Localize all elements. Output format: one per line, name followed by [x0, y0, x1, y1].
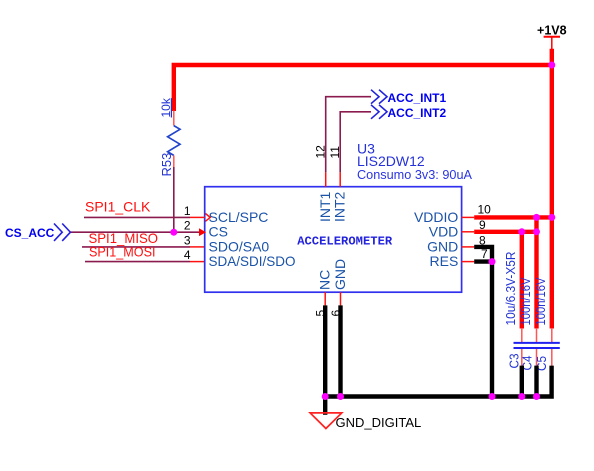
svg-text:GND: GND [332, 259, 348, 290]
pin 3 stub [190, 246, 205, 248]
junction bus gnd [322, 393, 329, 400]
svg-text:GND_DIGITAL: GND_DIGITAL [336, 415, 422, 430]
junction VDD-column2 [533, 228, 540, 235]
pin 12 stub [325, 172, 327, 186]
svg-text:SPI1_CLK: SPI1_CLK [85, 198, 151, 214]
wire +1V8 vertical column right [550, 49, 554, 329]
svg-text:INT2: INT2 [332, 191, 348, 222]
wire pin6 to bus [338, 305, 342, 396]
junction bus C4 [533, 393, 540, 400]
wire C4 to bus [534, 366, 538, 397]
resistor R1 (R53) [168, 111, 180, 168]
pin 11 stub [339, 172, 341, 186]
wire gnd stub [323, 397, 327, 415]
svg-text:10: 10 [478, 203, 492, 217]
junction +1V8 corner [548, 62, 555, 69]
wire ground bus with C5 riser [325, 366, 551, 397]
svg-text:ACC_INT1: ACC_INT1 [388, 91, 447, 105]
power symbol +1V8 [537, 24, 567, 51]
wire RES pin7 [474, 259, 492, 263]
wire SPI1_MISO [82, 246, 190, 248]
capacitor C3 [521, 328, 523, 366]
svg-text:SDO/SA0: SDO/SA0 [209, 239, 270, 255]
svg-text:VDD: VDD [429, 224, 459, 240]
svg-text:+1V8: +1V8 [537, 24, 567, 38]
svg-text:100n/16V: 100n/16V [519, 277, 533, 325]
capacitor plates C3 C4 C5 [514, 343, 560, 348]
pin 10 stub [462, 216, 475, 218]
capacitor C4 [536, 328, 538, 366]
svg-text:ACC_INT2: ACC_INT2 [388, 106, 447, 120]
svg-text:NC: NC [317, 270, 333, 290]
port ACC_INT2 [371, 105, 447, 120]
svg-text:3: 3 [184, 233, 191, 247]
pin 5 stub [324, 292, 326, 305]
capacitor C5 [551, 328, 553, 366]
pin 4 stub [190, 261, 205, 263]
pin 9 stub [462, 231, 475, 233]
wire column C4 [534, 217, 538, 328]
svg-text:100n/16V: 100n/16V [534, 277, 548, 325]
port CS_ACC [5, 224, 70, 241]
wire C3 to bus [520, 366, 524, 397]
junction VDD-column1 [518, 228, 525, 235]
svg-text:Consumo 3v3: 90uA: Consumo 3v3: 90uA [357, 167, 472, 182]
junction VDDIO-column1 [533, 214, 540, 221]
ground GND_DIGITAL symbol [310, 413, 342, 429]
port ACC_INT1 [371, 90, 447, 105]
svg-text:CS: CS [209, 224, 228, 240]
pin 8 stub [462, 246, 475, 248]
wire ACC_INT2 [340, 112, 371, 173]
wire +1V8 thick red top rail [174, 65, 552, 111]
op-amp U3 accelerometer body [205, 187, 462, 293]
pin 6 stub [340, 292, 342, 305]
svg-text:VDDIO: VDDIO [414, 209, 458, 225]
pin 2 filled arrow [199, 228, 206, 236]
pin 7 stub [462, 261, 475, 263]
wire CS_ACC [71, 231, 200, 233]
junction bus C3 [518, 393, 525, 400]
pin 1 stub with open arrow [190, 214, 210, 222]
svg-text:R53: R53 [159, 153, 174, 177]
wire GND pin8 [474, 247, 492, 397]
wire VDD rail [474, 230, 536, 234]
svg-text:SCL/SPC: SCL/SPC [209, 209, 269, 225]
wire SPI1_MOSI [85, 261, 190, 263]
svg-text:ACCELEROMETER: ACCELEROMETER [297, 235, 393, 249]
svg-text:RES: RES [430, 253, 459, 269]
svg-text:SPI1_MOSI: SPI1_MOSI [89, 243, 156, 259]
svg-text:1: 1 [184, 204, 191, 218]
junction on CS wire [170, 229, 177, 236]
wire VDDIO rail [474, 215, 552, 219]
svg-text:4: 4 [184, 248, 191, 262]
svg-text:GND: GND [427, 239, 458, 255]
svg-text:10u/6.3V-X5R: 10u/6.3V-X5R [504, 252, 518, 326]
svg-text:CS_ACC: CS_ACC [5, 226, 55, 240]
wire ACC_INT1 [326, 97, 371, 173]
junction bus pin8 [489, 393, 496, 400]
wire R53 to CS [173, 167, 175, 232]
svg-text:2: 2 [184, 219, 191, 233]
wire column C3 [520, 232, 524, 329]
junction VDDIO-column2 [548, 214, 555, 221]
svg-text:10k: 10k [159, 97, 173, 117]
svg-text:SDA/SDI/SDO: SDA/SDI/SDO [209, 253, 296, 269]
svg-text:7: 7 [481, 247, 488, 261]
junction RES [489, 258, 496, 265]
junction bus pin6 [337, 393, 344, 400]
wire pin5 to bus [323, 305, 327, 396]
wire SPI1_CLK [84, 216, 190, 218]
